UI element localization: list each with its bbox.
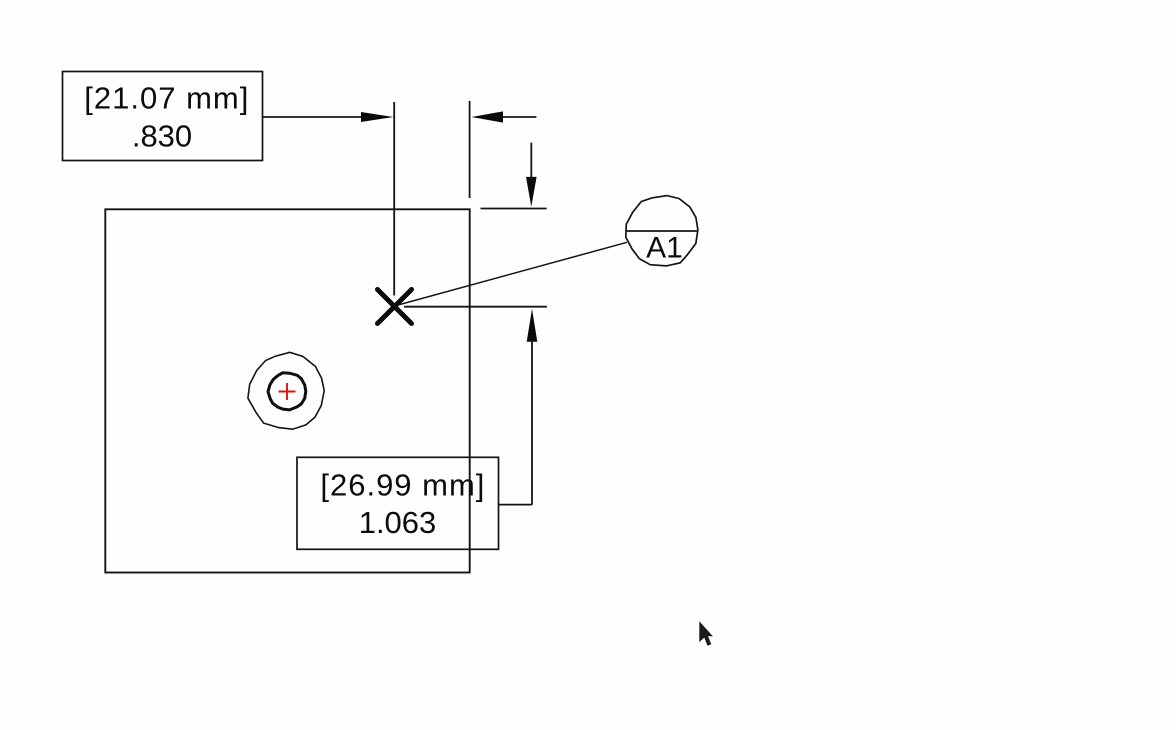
svg-text:[26.99 mm]: [26.99 mm] (320, 468, 485, 503)
svg-text:.830: .830 (132, 118, 192, 153)
svg-text:1.063: 1.063 (359, 505, 437, 540)
svg-text:[21.07 mm]: [21.07 mm] (84, 81, 249, 116)
svg-text:A1: A1 (646, 232, 683, 265)
